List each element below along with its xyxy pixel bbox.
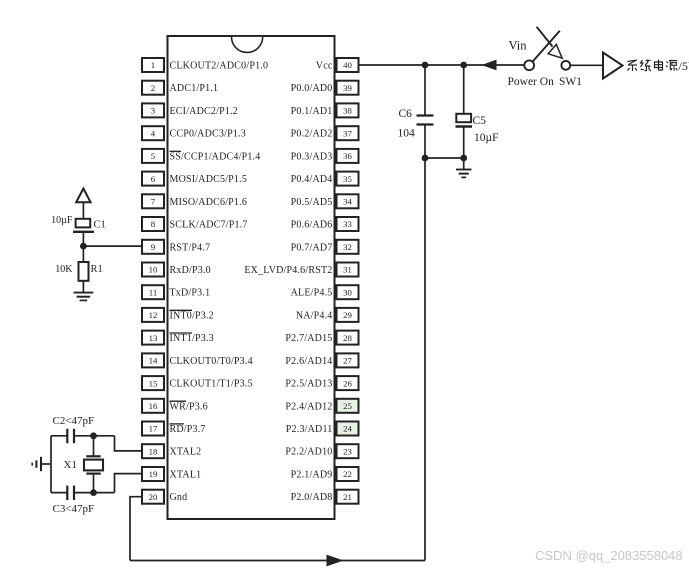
svg-text:NA/P4.4: NA/P4.4 [296,310,333,321]
wire joining C6 and C5 bottoms [425,157,464,159]
svg-text:23: 23 [343,446,352,456]
ground (rotated) at crystal network [32,457,41,471]
wire ground return (bottom horizontal) [130,560,425,562]
pin 40 box and label Vcc [316,58,359,72]
svg-text:36: 36 [343,151,352,161]
wire C6 top lead [424,65,426,116]
pin 35 box and label P0.4/AD4 [291,172,359,186]
svg-text:P0.0/AD0: P0.0/AD0 [291,83,333,94]
wire C5 top lead [463,65,465,114]
svg-text:SCLK/ADC7/P1.7: SCLK/ADC7/P1.7 [170,220,248,231]
svg-text:P0.7/AD7: P0.7/AD7 [291,242,333,253]
pin 16 box and label WR/P3.6 [142,399,208,413]
pin 33 box and label P0.6/AD6 [291,217,359,231]
svg-text:P0.3/AD3: P0.3/AD3 [291,151,333,162]
svg-text:26: 26 [343,378,352,388]
pin 31 box and label EX_LVD/P4.6/RST2 [244,263,358,277]
svg-text:10: 10 [149,265,158,275]
svg-text:RST/P4.7: RST/P4.7 [170,242,211,253]
pin 13 box and label INT1/P3.3 [142,331,214,345]
svg-text:Power On: Power On [508,76,555,88]
pin 8 box and label SCLK/ADC7/P1.7 [142,217,248,231]
svg-text:P2.3/AD11: P2.3/AD11 [286,424,333,435]
pin 25 box and label P2.4/AD12 [285,399,358,413]
svg-text:Vcc: Vcc [316,61,333,72]
switch SW1 Power On [524,27,570,70]
pin 28 box and label P2.7/AD15 [285,331,358,345]
svg-text:40: 40 [343,60,352,70]
wire VCC to C1 [82,202,84,219]
capacitor C1 10uF (polarized) [73,219,94,232]
svg-text:ALE/P4.5: ALE/P4.5 [291,288,333,299]
svg-text:X1: X1 [64,459,77,471]
svg-text:C2<47pF: C2<47pF [53,415,95,427]
pin 36 box and label P0.3/AD3 [291,149,359,163]
svg-text:104: 104 [398,128,416,140]
pin 18 box and label XTAL2 [142,444,201,458]
pin 37 box and label P0.2/AD2 [291,126,359,140]
svg-text:35: 35 [343,174,352,184]
svg-text:C5: C5 [473,115,487,127]
pin 4 box and label CCP0/ADC3/P1.3 [142,126,246,140]
wire C1 to RST node [82,232,84,262]
node junction at C5 top [460,62,467,69]
svg-text:1: 1 [151,60,155,70]
node junction C6 bottom [422,155,429,162]
ground under C5 [456,170,472,178]
svg-text:ADC1/P1.1: ADC1/P1.1 [170,83,219,94]
wire RST node to pin 9 [83,245,142,247]
pin 26 box and label P2.5/AD13 [285,376,358,390]
wire to pin 19 XTAL1 [115,474,143,493]
pin 15 box and label CLKOUT1/T1/P3.5 [142,376,253,390]
svg-text:15: 15 [149,378,158,388]
svg-text:INT1/P3.3: INT1/P3.3 [170,333,214,344]
svg-text:TxD/P3.1: TxD/P3.1 [170,288,211,299]
power supply symbol VCC (triangle) above C1 [76,189,90,203]
svg-text:Gnd: Gnd [170,492,188,503]
node XTAL1 junction [90,489,97,496]
resistor R1 10K [79,262,89,281]
node XTAL2 junction [90,432,97,439]
pin 7 box and label MISO/ADC6/P1.6 [142,194,247,208]
wire C6 bottom lead [424,125,426,159]
pin 10 box and label RxD/P3.0 [142,263,211,277]
svg-text:MISO/ADC6/P1.6: MISO/ADC6/P1.6 [170,197,248,208]
svg-text:CLKOUT1/T1/P3.5: CLKOUT1/T1/P3.5 [170,379,253,390]
svg-text:22: 22 [343,469,352,479]
svg-text:10µF: 10µF [51,215,73,226]
svg-text:CCP0/ADC3/P1.3: CCP0/ADC3/P1.3 [170,129,246,140]
svg-text:8: 8 [151,219,156,229]
pin 1 box and label CLKOUT2/ADC0/P1.0 [142,58,268,72]
svg-text:16: 16 [149,401,158,411]
pin 19 box and label XTAL1 [142,467,201,481]
svg-text:CLKOUT0/T0/P3.4: CLKOUT0/T0/P3.4 [170,356,253,367]
svg-text:RxD/P3.0: RxD/P3.0 [170,265,211,276]
wire ground return (vertical) [424,158,426,561]
svg-text:31: 31 [343,265,352,275]
svg-text:P2.7/AD15: P2.7/AD15 [285,333,332,344]
svg-text:5: 5 [151,151,156,161]
svg-text:25: 25 [343,401,352,411]
svg-text:10µF: 10µF [474,132,499,144]
arrow on bottom wire pointing right [327,555,344,567]
svg-text:14: 14 [149,356,158,366]
wire left rail of crystal network [50,436,52,493]
pin 6 box and label MOSI/ADC5/P1.5 [142,172,247,186]
wire C2 to XTAL2 node [74,435,115,437]
ground under R1 [74,293,94,301]
pin 39 box and label P0.0/AD0 [291,81,359,95]
svg-text:XTAL1: XTAL1 [170,470,202,481]
svg-text:20: 20 [149,492,158,502]
wire pin 20 Gnd to bottom rail [130,497,142,561]
svg-text:R1: R1 [91,264,103,275]
pin 38 box and label P0.1/AD1 [291,103,359,117]
wire top branch to C2 [51,435,67,437]
svg-text:29: 29 [343,310,352,320]
wire bottom branch to C3 [51,492,67,494]
svg-text:30: 30 [343,287,352,297]
power source buffer triangle [603,53,623,79]
svg-text:RD/P3.7: RD/P3.7 [170,424,206,435]
svg-text:13: 13 [149,333,158,343]
svg-text:SW1: SW1 [559,76,582,88]
svg-text:7: 7 [151,197,156,207]
svg-text:WR/P3.6: WR/P3.6 [170,401,208,412]
svg-text:4: 4 [151,128,156,138]
svg-text:Vin: Vin [509,39,528,53]
pin 12 box and label INT0/P3.2 [142,308,214,322]
svg-text:3: 3 [151,106,156,116]
pin 32 box and label P0.7/AD7 [291,240,359,254]
microcontroller U1 (40-pin DIP body) [168,36,335,519]
svg-text:17: 17 [149,424,158,434]
wire Vcc rail from pin 40 to switch [359,64,525,66]
pin 23 box and label P2.2/AD10 [285,444,358,458]
svg-text:/5V: /5V [679,59,689,73]
svg-text:P0.1/AD1: P0.1/AD1 [291,106,333,117]
svg-text:9: 9 [151,242,156,252]
svg-text:38: 38 [343,106,352,116]
svg-text:P0.4/AD4: P0.4/AD4 [291,174,333,185]
svg-text:P2.1/AD9: P2.1/AD9 [291,470,333,481]
label 系统电源/5V (system power 5V) [628,60,678,72]
pin 20 box and label Gnd [142,490,187,504]
capacitor C5 10uF (polarized) [456,114,473,127]
wire to pin 18 XTAL2 [115,436,143,451]
svg-text:10K: 10K [55,264,73,275]
pin 30 box and label ALE/P4.5 [291,285,359,299]
pin 5 box and label SS/CCP1/ADC4/P1.4 [142,149,260,163]
svg-text:C3<47pF: C3<47pF [53,503,95,515]
svg-text:18: 18 [149,446,158,456]
pin 17 box and label RD/P3.7 [142,422,206,436]
svg-text:P0.2/AD2: P0.2/AD2 [291,129,333,140]
svg-text:P2.4/AD12: P2.4/AD12 [285,401,332,412]
svg-text:24: 24 [343,424,352,434]
svg-text:MOSI/ADC5/P1.5: MOSI/ADC5/P1.5 [170,174,248,185]
pin 14 box and label CLKOUT0/T0/P3.4 [142,353,253,367]
pin 34 box and label P0.5/AD5 [291,194,359,208]
svg-text:P2.6/AD14: P2.6/AD14 [285,356,332,367]
pin 24 box and label P2.3/AD11 [286,422,359,436]
svg-text:6: 6 [151,174,156,184]
wire switch to power source triangle [570,64,602,66]
pin 21 box and label P2.0/AD8 [291,490,359,504]
node RST junction [80,243,87,250]
node junction C5 bottom [460,155,467,162]
crystal X1 [84,436,103,493]
svg-text:P2.5/AD13: P2.5/AD13 [285,379,332,390]
svg-text:P2.0/AD8: P2.0/AD8 [291,492,333,503]
capacitor C3 47pF [67,486,74,500]
capacitor C6 104 [417,116,434,125]
svg-text:12: 12 [149,310,158,320]
svg-text:27: 27 [343,356,352,366]
svg-text:C6: C6 [399,108,413,120]
svg-text:ECI/ADC2/P1.2: ECI/ADC2/P1.2 [170,106,238,117]
wire to side ground [41,463,51,465]
svg-text:19: 19 [149,469,158,479]
svg-text:34: 34 [343,197,352,207]
wire R1 to ground [82,281,84,293]
svg-text:P2.2/AD10: P2.2/AD10 [285,447,332,458]
svg-text:37: 37 [343,128,352,138]
svg-text:P0.6/AD6: P0.6/AD6 [291,220,333,231]
pin 3 box and label ECI/ADC2/P1.2 [142,103,238,117]
svg-text:EX_LVD/P4.6/RST2: EX_LVD/P4.6/RST2 [244,265,332,276]
svg-text:SS/CCP1/ADC4/P1.4: SS/CCP1/ADC4/P1.4 [170,151,261,162]
svg-text:P0.5/AD5: P0.5/AD5 [291,197,333,208]
capacitor C2 47pF [67,429,74,443]
svg-text:2: 2 [151,83,155,93]
pin 9 box and label RST/P4.7 [142,240,210,254]
svg-text:C1: C1 [94,220,106,231]
svg-text:INT0/P3.2: INT0/P3.2 [170,310,214,321]
wire C3 to XTAL1 node [74,492,115,494]
wire C5 bottom lead [463,127,465,170]
pin 2 box and label ADC1/P1.1 [142,81,218,95]
pin 11 box and label TxD/P3.1 [142,285,210,299]
pin 27 box and label P2.6/AD14 [285,353,358,367]
svg-text:XTAL2: XTAL2 [170,447,202,458]
arrow on Vcc wire pointing left [482,60,497,71]
pin 29 box and label NA/P4.4 [296,308,359,322]
svg-text:CSDN @qq_2083558048: CSDN @qq_2083558048 [535,548,683,563]
svg-text:21: 21 [343,492,352,502]
node junction at C6 top [422,62,429,69]
svg-text:32: 32 [343,242,352,252]
pin 22 box and label P2.1/AD9 [291,467,359,481]
svg-text:11: 11 [149,287,157,297]
svg-text:CLKOUT2/ADC0/P1.0: CLKOUT2/ADC0/P1.0 [170,61,269,72]
svg-text:39: 39 [343,83,352,93]
svg-text:28: 28 [343,333,352,343]
svg-text:33: 33 [343,219,352,229]
